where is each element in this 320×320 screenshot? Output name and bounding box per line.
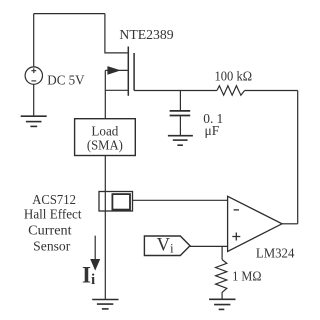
wire cap to ground [179,116,181,135]
resistor R1 100k zigzag [217,86,245,96]
wire gate drop from rail [105,14,128,53]
svg-text:NTE2389: NTE2389 [119,27,174,42]
svg-text:Current: Current [28,222,72,237]
ground G3 under R2 [209,299,235,309]
load box [75,119,136,156]
Q1 source connection horizontal [105,89,127,91]
op-amp U1 LM324 triangle [228,196,282,251]
wire resistor to right rail [245,90,298,92]
wire op-amp output [282,223,298,225]
svg-text:Ii: Ii [82,263,95,288]
resistor R2 1M zigzag [216,260,227,299]
U1 minus symbol [234,209,239,211]
svg-text:100 kΩ: 100 kΩ [215,68,253,83]
wire Vi to op-amp plus [190,245,228,247]
sensor U2 outer box [99,192,133,212]
wire right rail down to op-amp output [297,91,299,224]
V1 minus sign [31,80,36,82]
wire sensor output to op-amp minus [133,199,228,201]
svg-text:ACS712: ACS712 [32,192,76,207]
Q1 channel bar [133,53,135,90]
arrow Ii current direction [94,236,96,260]
svg-text:Hall Effect: Hall Effect [24,206,82,221]
svg-text:1 MΩ: 1 MΩ [232,268,261,283]
svg-text:μF: μF [205,123,220,138]
Vi source box [144,236,190,256]
capacitor C1 plates [170,111,191,116]
U1 plus symbol [232,233,240,241]
wire cap junction drop [179,91,181,111]
wire source bottom to ground [33,84,35,116]
ground G4 bottom left [92,300,118,309]
svg-text:DC 5V: DC 5V [47,73,85,88]
transistor Q1 NTE2389 gate bar [127,47,129,96]
wire drain to resistor [134,90,217,92]
svg-text:LM324: LM324 [256,246,295,261]
Q1 arrowhead [107,66,120,75]
wire plus node down to resistor R2 [221,246,223,259]
V1 plus sign [31,68,36,73]
ground G2 under capacitor [168,136,193,146]
voltage source V1 DC 5V circle [25,67,42,84]
ground G1 under DC source [21,116,47,126]
svg-text:Vi: Vi [157,236,174,256]
wire through sensor down to ground [104,192,106,300]
wire top rail [34,13,105,15]
wire left vertical to source top [33,14,35,67]
svg-text:Sensor: Sensor [33,238,71,253]
sensor U2 inner square [112,194,130,210]
wire source vertical down to load [104,70,106,118]
Q1 arrow line (body) [105,69,127,71]
wire load bottom to sensor [104,156,106,192]
svg-text:Load: Load [91,123,118,138]
svg-text:(SMA): (SMA) [87,137,123,152]
